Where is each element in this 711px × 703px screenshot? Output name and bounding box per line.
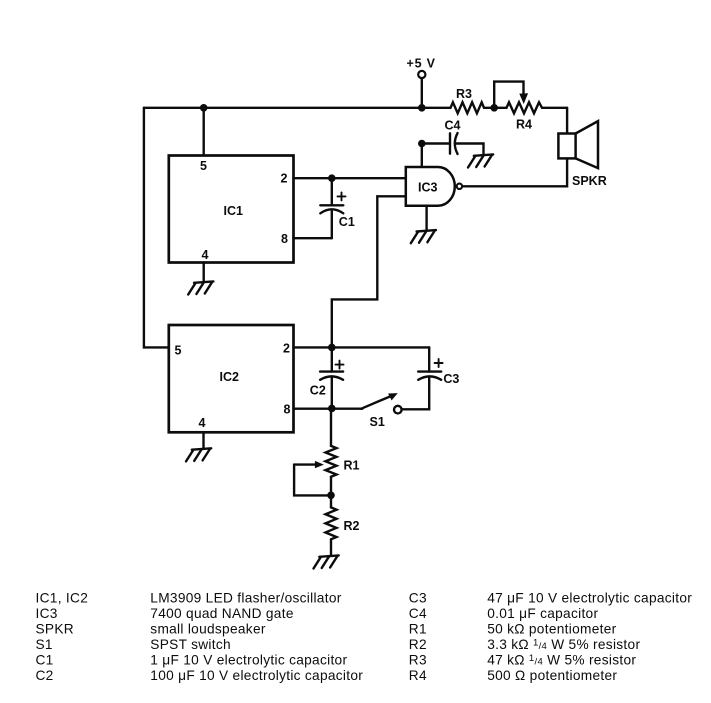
op-amp U1: NAND gate IC3 xyxy=(406,167,462,206)
ground (R2) xyxy=(314,555,339,568)
svg-text:LM3909 LED flasher/oscillator: LM3909 LED flasher/oscillator xyxy=(150,591,341,606)
svg-text:2: 2 xyxy=(283,342,290,356)
svg-text:R4: R4 xyxy=(516,118,532,132)
capacitor C4 xyxy=(422,118,484,155)
svg-text:100 μF 10 V electrolytic capac: 100 μF 10 V electrolytic capacitor xyxy=(150,668,363,683)
wire pin8 node down to R1 xyxy=(330,408,332,446)
wire top rail xyxy=(144,107,422,109)
wire IC3 input B jog to IC2 pin2 node xyxy=(332,196,406,347)
node pin2/C1 junction xyxy=(328,174,336,182)
wire IC3 bottom to ground xyxy=(425,206,427,231)
svg-text:50 kΩ potentiometer: 50 kΩ potentiometer xyxy=(487,622,616,637)
node IC2 pin2 junction xyxy=(328,344,336,352)
wire speaker to NAND output xyxy=(462,158,567,186)
capacitor C2 xyxy=(310,347,344,408)
svg-text:R2: R2 xyxy=(409,637,427,652)
resistor R3 xyxy=(422,87,494,113)
wire +5V to IC3 top xyxy=(421,144,423,168)
svg-text:4: 4 xyxy=(199,416,206,430)
svg-text:1 μF 10 V electrolytic capacit: 1 μF 10 V electrolytic capacitor xyxy=(150,653,347,668)
svg-text:5: 5 xyxy=(175,344,182,358)
node +5V junction xyxy=(418,104,426,112)
svg-text:C4: C4 xyxy=(409,606,427,621)
node R1/R2 junction xyxy=(327,492,335,500)
IC2 box xyxy=(169,325,294,432)
wire IC2 pin2 rail xyxy=(294,346,430,348)
svg-text:47 μF 10 V electrolytic capaci: 47 μF 10 V electrolytic capacitor xyxy=(487,591,692,606)
wire IC1 pin5 xyxy=(202,108,204,156)
svg-text:3.3 kΩ 1/4 W 5% resistor: 3.3 kΩ 1/4 W 5% resistor xyxy=(487,637,640,652)
wire IC1 pin8 xyxy=(294,237,332,239)
svg-text:5: 5 xyxy=(200,159,207,173)
svg-text:4: 4 xyxy=(202,248,209,262)
svg-text:R1: R1 xyxy=(344,459,360,473)
svg-text:R1: R1 xyxy=(409,622,427,637)
capacitor C3 xyxy=(402,347,460,409)
svg-text:C1: C1 xyxy=(339,215,355,229)
svg-text:IC1, IC2: IC1, IC2 xyxy=(36,591,89,606)
potentiometer R4 xyxy=(494,82,567,132)
capacitor C1 xyxy=(320,178,355,238)
svg-text:500 Ω potentiometer: 500 Ω potentiometer xyxy=(487,668,617,683)
wire IC1 pin2 to IC3 input A xyxy=(294,177,406,179)
wire left rail xyxy=(144,108,169,348)
switch S1 xyxy=(361,393,402,429)
wire IC2 pin8 xyxy=(294,408,363,410)
svg-text:R3: R3 xyxy=(456,87,472,101)
potentiometer R1 xyxy=(294,446,359,496)
svg-text:IC3: IC3 xyxy=(36,606,58,621)
svg-text:7400 quad NAND gate: 7400 quad NAND gate xyxy=(150,606,293,621)
svg-text:8: 8 xyxy=(284,403,291,417)
IC1 box xyxy=(169,156,294,263)
svg-text:0.01 μF capacitor: 0.01 μF capacitor xyxy=(487,606,598,621)
svg-text:IC2: IC2 xyxy=(220,370,240,384)
svg-text:+5 V: +5 V xyxy=(407,57,436,71)
+5V supply terminal xyxy=(407,57,436,108)
svg-text:R2: R2 xyxy=(344,519,360,533)
svg-text:S1: S1 xyxy=(370,415,385,429)
wire R4 to speaker xyxy=(566,108,568,134)
svg-text:2: 2 xyxy=(281,172,288,186)
resistor R2 xyxy=(326,495,360,556)
svg-text:SPKR: SPKR xyxy=(572,174,607,188)
svg-text:R3: R3 xyxy=(409,653,427,668)
wire IC1 pin4 xyxy=(202,263,204,283)
parts list text xyxy=(36,591,693,683)
svg-text:C2: C2 xyxy=(310,384,326,398)
svg-text:S1: S1 xyxy=(36,637,53,652)
speaker SPKR xyxy=(558,121,606,188)
svg-text:C4: C4 xyxy=(445,118,461,132)
svg-text:SPST switch: SPST switch xyxy=(150,637,231,652)
svg-text:small loudspeaker: small loudspeaker xyxy=(150,622,266,637)
svg-text:47 kΩ 1/4 W 5% resistor: 47 kΩ 1/4 W 5% resistor xyxy=(487,653,636,668)
ground (IC2) xyxy=(186,448,211,461)
svg-text:C2: C2 xyxy=(36,668,54,683)
svg-text:C3: C3 xyxy=(409,591,427,606)
wire IC2 pin4 xyxy=(202,432,204,449)
svg-text:8: 8 xyxy=(281,232,288,246)
ground (C4) xyxy=(468,154,493,167)
node R3/R4 junction xyxy=(490,104,498,112)
svg-text:C3: C3 xyxy=(443,372,459,386)
node C4 junction xyxy=(418,140,426,148)
svg-text:R4: R4 xyxy=(409,668,427,683)
svg-text:IC3: IC3 xyxy=(418,180,438,194)
ground (IC3) xyxy=(411,230,436,243)
node junction top of IC1 pin5 xyxy=(200,104,208,112)
svg-text:SPKR: SPKR xyxy=(36,622,74,637)
ground (IC1) xyxy=(188,281,213,294)
svg-text:IC1: IC1 xyxy=(224,204,244,218)
node IC2 pin8 junction xyxy=(328,405,336,413)
svg-text:C1: C1 xyxy=(36,653,54,668)
